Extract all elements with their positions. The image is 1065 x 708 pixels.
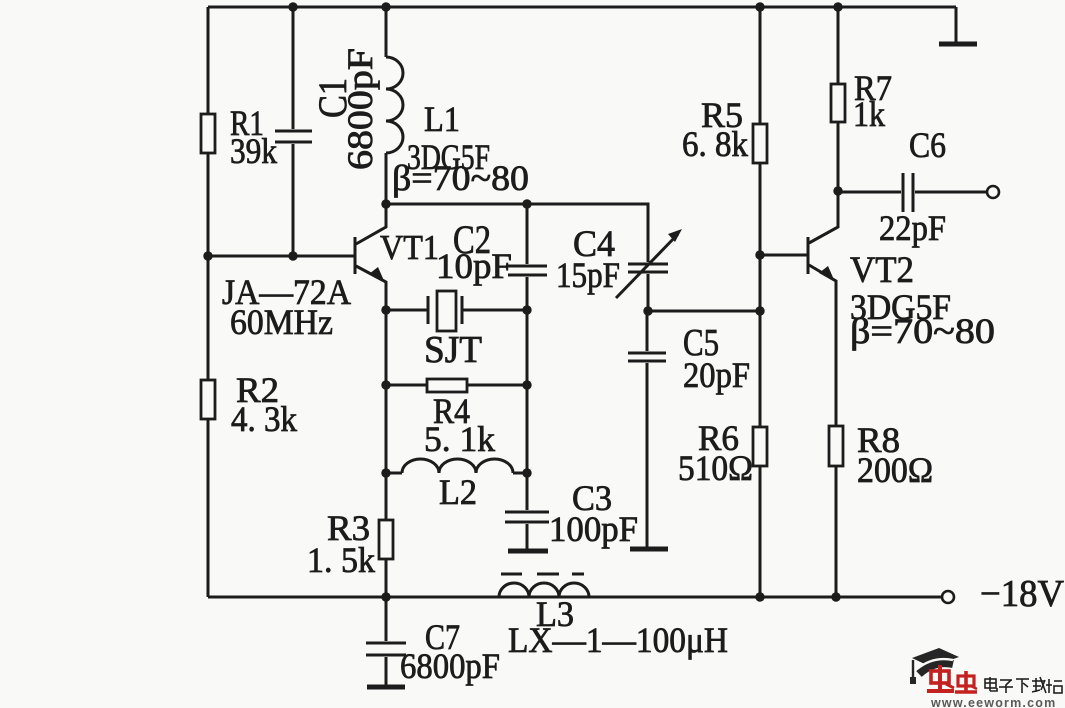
node top rail C1 bbox=[288, 2, 297, 11]
node C4 bottom bbox=[643, 306, 652, 315]
node L2 left bbox=[381, 468, 390, 477]
node L2 right bbox=[522, 468, 531, 477]
svg-text:22pF: 22pF bbox=[879, 208, 946, 248]
resistor R1 bbox=[201, 114, 215, 153]
logo chong char 2 bbox=[955, 671, 977, 692]
terminal -18V bbox=[942, 591, 954, 603]
wire C7 upper bbox=[385, 597, 388, 641]
node VT1 collector bbox=[381, 199, 390, 208]
svg-text:5. 1k: 5. 1k bbox=[424, 419, 495, 459]
wire crystal row left bbox=[386, 309, 428, 312]
wire emitter column mid bbox=[385, 310, 388, 597]
wire L1 column lower bbox=[385, 153, 388, 204]
node bottom rail R8 bbox=[831, 592, 840, 601]
node C2 top bbox=[522, 199, 531, 208]
svg-text:510Ω: 510Ω bbox=[678, 448, 753, 488]
capacitor C2 bbox=[508, 266, 547, 275]
wire C2 lower / mid column bbox=[526, 277, 529, 510]
resistor R8 bbox=[829, 426, 843, 466]
wire C5 upper bbox=[646, 311, 649, 351]
resistor R7 bbox=[831, 84, 845, 122]
wire crystal row right bbox=[462, 309, 527, 312]
node base rail left bbox=[203, 251, 212, 260]
svg-text:−18V: −18V bbox=[980, 573, 1065, 615]
svg-text:39k: 39k bbox=[230, 131, 277, 171]
wire left column bbox=[207, 7, 210, 597]
svg-text:4. 3k: 4. 3k bbox=[231, 399, 297, 439]
svg-text:www.eeworm.com: www.eeworm.com bbox=[930, 696, 1056, 708]
ground C3 bbox=[508, 549, 548, 554]
svg-text:VT2: VT2 bbox=[850, 250, 914, 291]
svg-text:SJT: SJT bbox=[424, 329, 482, 371]
capacitor C6 bbox=[903, 173, 913, 212]
wire bottom rail bbox=[208, 596, 942, 599]
node SJT right bbox=[522, 305, 531, 314]
wire C2 upper bbox=[526, 204, 529, 264]
svg-text:6. 8k: 6. 8k bbox=[682, 124, 748, 164]
node bottom rail R6 bbox=[755, 592, 764, 601]
capacitor C7 bbox=[366, 643, 406, 655]
node R4 right bbox=[522, 380, 531, 389]
svg-text:β=70~80: β=70~80 bbox=[850, 311, 995, 351]
wire R4 row bbox=[386, 384, 527, 387]
resistor R5 bbox=[753, 124, 767, 163]
svg-text:L1: L1 bbox=[424, 99, 460, 139]
resistor R6 bbox=[753, 427, 767, 466]
wire C1 column lower bbox=[292, 144, 295, 256]
wire VT2 base feed bbox=[760, 254, 807, 257]
wire L2 row right bbox=[513, 472, 527, 475]
inductor L3 bbox=[499, 583, 589, 597]
wire collector rail to C4 bbox=[386, 204, 648, 262]
wire C3 lower bbox=[526, 524, 529, 550]
node R5/R6 junction bbox=[755, 306, 764, 315]
node R4 left bbox=[381, 380, 390, 389]
svg-text:10pF: 10pF bbox=[436, 246, 512, 286]
wire base feed (left) bbox=[208, 255, 354, 258]
wire C7 lower bbox=[385, 657, 388, 685]
wire C4 lower bbox=[647, 274, 650, 311]
L3 core (dashed) bbox=[501, 573, 584, 576]
svg-text:β=70~80: β=70~80 bbox=[392, 158, 529, 198]
wire L2 row left bbox=[386, 472, 402, 475]
resistor R2 bbox=[201, 380, 215, 419]
svg-text:6800pF: 6800pF bbox=[340, 48, 380, 170]
capacitor C1 bbox=[275, 131, 312, 142]
terminal output bbox=[987, 186, 999, 198]
svg-text:60MHz: 60MHz bbox=[230, 302, 333, 342]
svg-text:VT1: VT1 bbox=[380, 228, 439, 267]
node C1 bottom bbox=[288, 251, 297, 260]
logo graduation cap bbox=[910, 648, 959, 684]
svg-text:LX—1—100μH: LX—1—100μH bbox=[508, 620, 728, 660]
transistor VT2 bbox=[808, 191, 838, 597]
wire top supply rail bbox=[208, 6, 956, 9]
logo site name (CJK strokes) bbox=[985, 677, 1062, 693]
wire C4 to R5/R6 junction bbox=[648, 310, 760, 313]
svg-text:1. 5k: 1. 5k bbox=[307, 540, 375, 580]
svg-text:200Ω: 200Ω bbox=[857, 450, 933, 490]
resistor R3 bbox=[379, 520, 393, 559]
capacitor C5 bbox=[628, 353, 666, 361]
node top rail R7 bbox=[833, 2, 842, 11]
resistor R4 bbox=[427, 379, 467, 392]
wire R5/R6 column bbox=[759, 7, 762, 597]
svg-text:20pF: 20pF bbox=[683, 355, 750, 395]
inductor L2 bbox=[402, 459, 513, 473]
wire C5 lower bbox=[646, 363, 649, 547]
wire C6 row left bbox=[838, 191, 901, 194]
node bottom rail C7 bbox=[381, 592, 390, 601]
wire L1 column upper bbox=[385, 7, 388, 57]
svg-text:100pF: 100pF bbox=[549, 509, 638, 549]
inductor L1 bbox=[386, 57, 403, 153]
wire R7 column bbox=[837, 7, 840, 191]
node top rail R5 bbox=[755, 2, 764, 11]
svg-text:1k: 1k bbox=[853, 94, 885, 134]
svg-text:C6: C6 bbox=[909, 125, 946, 165]
ground (top right) bbox=[939, 42, 977, 47]
wire ground drop from top rail bbox=[955, 7, 958, 43]
wire C1 column upper bbox=[292, 7, 295, 129]
node top rail L1 bbox=[381, 2, 390, 11]
transistor VT1 bbox=[355, 204, 386, 310]
logo chong char 1 bbox=[927, 665, 954, 691]
capacitor C3 bbox=[505, 512, 549, 522]
node VT2 base bbox=[755, 250, 764, 259]
svg-text:15pF: 15pF bbox=[556, 255, 620, 295]
node VT2 collector bbox=[833, 186, 842, 195]
crystal SJT bbox=[428, 291, 462, 331]
node SJT left bbox=[381, 305, 390, 314]
watermark logo bbox=[910, 648, 1062, 708]
svg-text:6800pF: 6800pF bbox=[400, 646, 500, 686]
svg-text:L2: L2 bbox=[439, 472, 477, 512]
ground C5 bbox=[630, 547, 668, 552]
wire C6 row right bbox=[915, 191, 987, 194]
ground C7 bbox=[367, 685, 405, 690]
capacitor C4 (variable) bbox=[616, 229, 682, 298]
